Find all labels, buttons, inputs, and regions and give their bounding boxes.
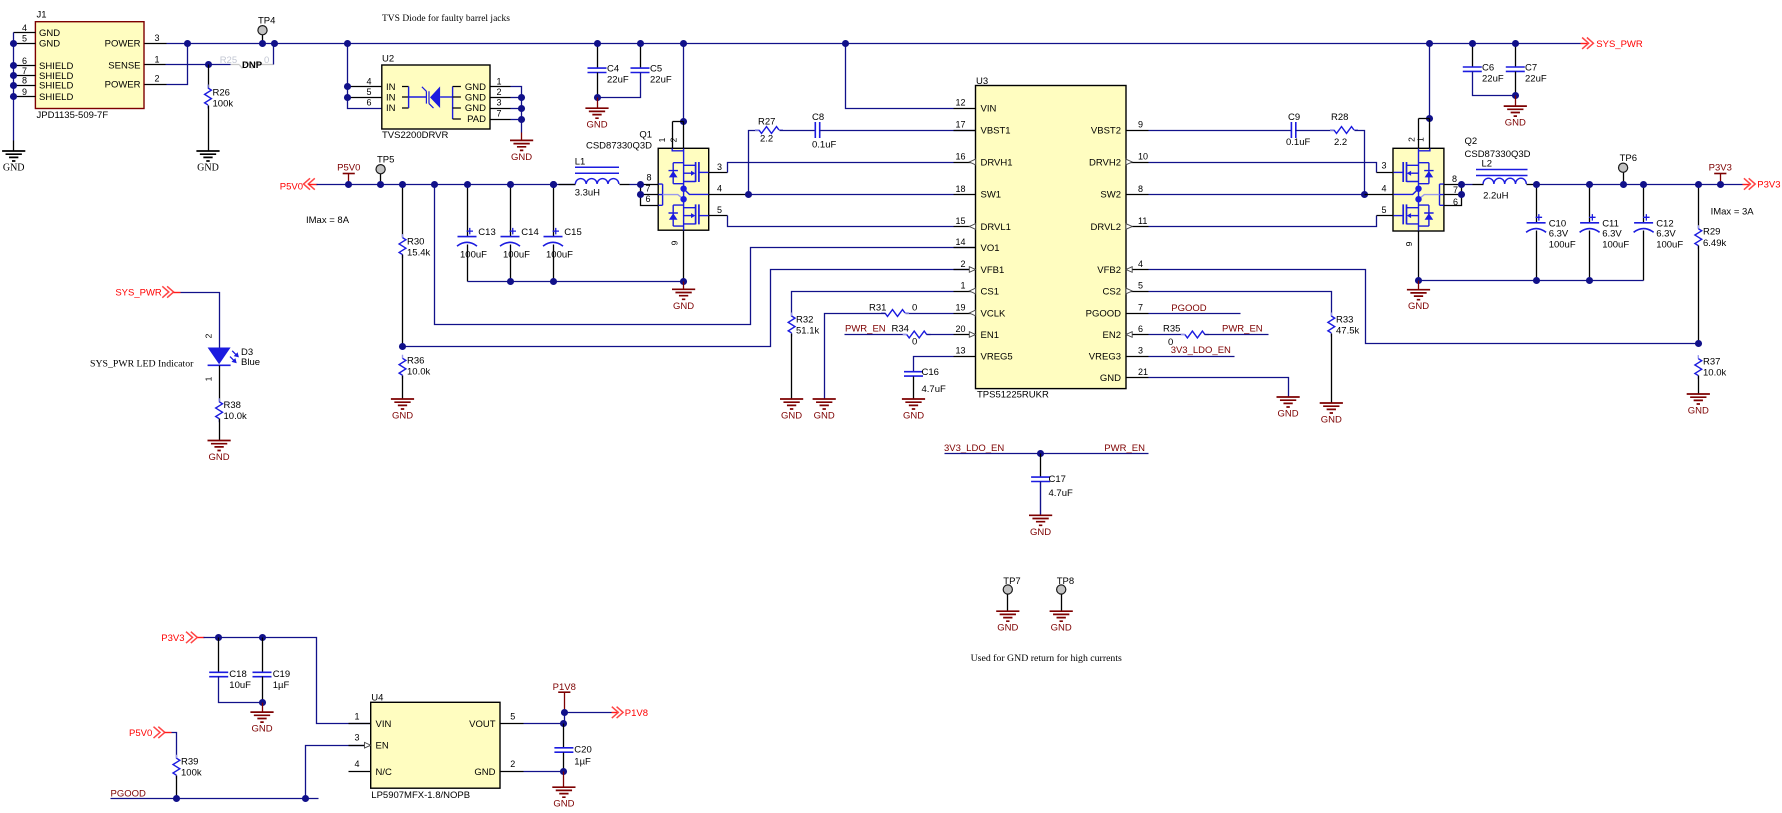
svg-text:100uF: 100uF [503,250,530,261]
resistor R27 2.2 [755,129,783,131]
svg-text:LP5907MFX-1.8/NOPB: LP5907MFX-1.8/NOPB [371,790,470,801]
svg-text:IMax = 3A: IMax = 3A [1711,207,1755,218]
TVS diode U2 TVS2200DRVR body [382,65,490,129]
junction J1 pin7 [10,72,17,79]
test point TP6 [1623,173,1625,185]
svg-text:3: 3 [1138,346,1143,356]
node junction EN riser PGOOD [302,795,309,802]
capacitor C19 1uF [262,638,264,673]
capacitor C14 100uF [510,185,512,237]
ground below R38 [208,441,231,451]
svg-text:7: 7 [1453,185,1458,195]
svg-text:0: 0 [264,55,269,66]
svg-text:2.2: 2.2 [760,134,773,145]
wire C8 to VBST1 [820,130,976,132]
svg-text:C19: C19 [273,669,290,680]
svg-text:R28: R28 [1331,112,1348,123]
svg-text:1: 1 [1416,137,1426,142]
svg-text:VFB2: VFB2 [1097,265,1121,276]
svg-text:EN2: EN2 [1103,330,1121,341]
svg-text:20: 20 [955,324,965,334]
J1 left pin stubs 4-9 [14,32,36,34]
svg-text:GND: GND [3,163,25,174]
node junction C18 [215,634,222,641]
node Q1 pin7 junction [637,191,644,198]
wire main SYS_PWR top bus [167,43,1581,45]
svg-text:R29: R29 [1703,227,1720,238]
svg-text:19: 19 [955,303,965,313]
junction J1 pin9 [10,93,17,100]
junction C18 C19 ground node [259,699,266,706]
svg-text:P3V3: P3V3 [1757,180,1780,191]
svg-text:VOUT: VOUT [469,719,496,730]
svg-text:TVS2200DRVR: TVS2200DRVR [382,130,448,141]
node junction C17 [1037,450,1044,457]
svg-text:SYS_PWR: SYS_PWR [115,288,162,299]
svg-text:R36: R36 [407,356,424,367]
svg-text:GND: GND [781,411,802,422]
svg-text:5: 5 [1381,205,1386,215]
node junction C19 [259,634,266,641]
node rail junction TP6 [1620,181,1627,188]
J1 pin2 POWER stub [145,84,167,86]
svg-text:Q1: Q1 [639,130,652,141]
svg-text:14: 14 [955,237,965,247]
wire EN riser to U4 [306,746,371,799]
U4 pin1 VIN [349,723,371,725]
svg-text:R38: R38 [224,400,241,411]
svg-text:15.4k: 15.4k [407,248,430,259]
node rail junction C13 [464,181,471,188]
wire R27 to C8 [780,130,816,132]
U4 pin5 VOUT [501,723,524,725]
capacitor C6 22uF [1472,44,1474,68]
ground below C16 [902,399,925,409]
ground below R31 [813,399,836,409]
wire SW1 to R27 riser [749,131,760,195]
U4 pin4 NC stub [349,771,371,773]
junction U2 pin5 [344,94,351,101]
svg-text:1µF: 1µF [273,680,290,691]
resistor R33 47.5k on CS2 [1149,292,1332,317]
node rail junction P3V3 flag [1717,181,1724,188]
node Q2 pin1-2 junction [1426,115,1433,122]
svg-text:4: 4 [717,184,722,194]
capacitor C16 4.7uF on VREG5 [914,357,954,372]
svg-text:6: 6 [22,56,27,66]
resistor R39 100k [175,755,177,779]
resistor R29 6.49k [1698,185,1700,229]
svg-text:22uF: 22uF [1525,73,1547,84]
svg-text:4.7uF: 4.7uF [1049,488,1073,499]
resistor R28 2.2 [1330,129,1358,131]
svg-text:11: 11 [1138,216,1147,226]
resistor R31 0 on VCLK [906,313,954,315]
svg-text:VREG3: VREG3 [1089,351,1121,362]
node bus junction at R25 [271,40,278,47]
U3 right pin stubs and names [1127,130,1149,132]
svg-text:GND: GND [1408,301,1429,312]
Q1 pin4 SW stub [709,194,749,196]
junction gnd rail C15 [550,278,557,285]
U3 left pin stubs and names [954,108,976,110]
node junction VOUT [560,720,567,727]
svg-text:IN: IN [386,103,396,114]
junction gnd rail Q1 pad [680,278,687,285]
svg-text:C5: C5 [650,63,662,74]
node main bus junction at pin2 riser [184,40,191,47]
Q1 pad 9 to ground rail [683,231,685,282]
svg-text:R30: R30 [407,237,424,248]
svg-text:SHIELD: SHIELD [39,92,73,103]
svg-text:51.1k: 51.1k [796,326,819,337]
node junction C20 GND [560,768,567,775]
svg-text:1: 1 [960,281,965,291]
svg-text:POWER: POWER [105,80,141,91]
svg-text:Q2: Q2 [1465,136,1478,147]
svg-text:6.3V: 6.3V [1602,229,1622,240]
ground below C19 [250,712,273,722]
wire output cap ground rail [468,281,684,283]
ground below U3 GND pin [1277,397,1300,407]
svg-text:VIN: VIN [981,103,997,114]
wire U4 GND to C20 bottom [524,771,564,773]
svg-text:22uF: 22uF [607,74,629,85]
svg-text:GND: GND [1051,623,1072,634]
svg-text:GND: GND [209,452,230,463]
resistor R32 51.1k on CS1 [792,292,954,317]
svg-text:GND: GND [465,93,486,104]
svg-text:VCLK: VCLK [981,308,1006,319]
test point TP7 [1003,585,1012,594]
svg-text:CS1: CS1 [981,286,999,297]
node Q2 pin8 junction [1458,181,1465,188]
svg-text:2: 2 [960,259,965,269]
svg-text:PWR_EN: PWR_EN [1104,443,1145,454]
svg-text:R39: R39 [181,757,198,768]
wire output2 cap ground rail [1419,280,1644,282]
resistor R30 15.4k [402,185,404,238]
svg-text:2.2: 2.2 [1334,137,1347,148]
svg-text:DNP: DNP [242,60,263,71]
wire P1V8 node [565,712,612,714]
svg-text:4: 4 [366,77,371,87]
svg-text:TVS Diode for faulty barrel ja: TVS Diode for faulty barrel jacks [382,13,510,24]
node rail junction R30 [399,181,406,188]
svg-text:PWR_EN: PWR_EN [1222,324,1263,335]
node rail junction VO1 sense [431,181,438,188]
svg-text:R33: R33 [1336,315,1353,326]
svg-text:5: 5 [22,34,27,44]
svg-text:9: 9 [670,240,680,245]
svg-text:P5V0: P5V0 [280,182,303,193]
svg-text:IMax = 8A: IMax = 8A [306,215,350,226]
node bus junction C7 [1512,40,1519,47]
capacitor C15 100uF [553,185,555,237]
ground below Q1 pad [672,289,695,299]
svg-text:1: 1 [657,137,667,142]
net label 3V3_LDO_EN on VREG3 [1149,356,1235,358]
svg-text:6: 6 [645,194,650,204]
junction gnd2 rail C10 [1533,277,1540,284]
svg-text:J1: J1 [37,10,47,21]
svg-text:GND: GND [465,82,486,93]
svg-text:GND: GND [39,39,60,50]
svg-text:8: 8 [1138,184,1143,194]
svg-text:C18: C18 [229,669,246,680]
resistor R36 10.0k [402,355,404,379]
capacitor C17 4.7uF [1040,454,1042,478]
junction gnd2 rail Q2 pad [1415,277,1422,284]
node SW1 junction R27 riser [745,191,752,198]
svg-text:GND: GND [511,152,532,163]
node rail junction P5V0 flag [345,181,352,188]
svg-text:GND: GND [1278,409,1299,420]
ground below C17 [1029,515,1052,525]
wire bus drop to Q1 pins 1-2 [683,44,685,122]
resistor R38 10.0k [218,398,220,422]
wire Q1 pad ground lead [683,282,685,290]
node rail junction C11 [1586,181,1593,188]
svg-text:EN: EN [376,741,389,752]
svg-text:GND: GND [251,724,272,735]
wire SYS_PWR to D3 [181,293,220,348]
svg-text:100k: 100k [213,99,234,110]
capacitor C8 0.1uF [815,122,819,138]
wire VO1 sense to rail [435,185,976,325]
svg-text:GND: GND [39,28,60,39]
node VFB2 divider junction [1695,340,1702,347]
svg-text:CS2: CS2 [1103,286,1121,297]
svg-text:P1V8: P1V8 [625,708,648,719]
node SENSE junction [205,61,212,68]
wire P5V0 to R39 [172,733,177,759]
svg-text:9: 9 [1404,241,1414,246]
svg-text:GND: GND [553,799,574,810]
svg-text:GND: GND [586,120,607,131]
svg-text:10.0k: 10.0k [407,367,430,378]
svg-text:L1: L1 [575,157,586,168]
wire R28 to SW2 riser [1355,131,1365,195]
node bus junction C5 [637,40,644,47]
wire Q1 pin1 pin2 leads [673,121,684,123]
wire U2 IN pin4 [348,86,382,88]
svg-text:4.7uF: 4.7uF [922,384,946,395]
wire C19 ground lead [262,703,264,713]
test point TP4 [262,35,264,44]
test point TP8 [1057,585,1066,594]
ground below R36 [391,399,414,409]
svg-text:C6: C6 [1482,62,1494,73]
net arrow P3V3 right [1743,184,1751,186]
svg-text:P3V3: P3V3 [1709,163,1732,174]
svg-text:Used for GND return for high c: Used for GND return for high currents [971,653,1122,664]
svg-text:DRVL1: DRVL1 [981,222,1011,233]
svg-text:16: 16 [955,152,965,162]
svg-text:TP4: TP4 [258,16,275,27]
svg-text:100uF: 100uF [460,250,487,261]
svg-text:10: 10 [1138,152,1148,162]
wire VFB2 to output divider [1149,270,1699,344]
wire Q2 pad ground lead [1418,281,1420,290]
junction gnd rail C14 [507,278,514,285]
svg-text:21: 21 [1138,367,1148,377]
LED D3 Blue [208,348,231,365]
wire C4 ground lead [597,98,599,109]
svg-text:10.0k: 10.0k [224,411,247,422]
svg-text:L2: L2 [1482,159,1493,170]
inductor L1 3.3uH [559,184,576,186]
node Q2 pin7 junction [1458,191,1465,198]
svg-text:GND: GND [197,163,219,174]
svg-text:C20: C20 [574,745,591,756]
svg-text:SENSE: SENSE [108,60,140,71]
svg-text:47.5k: 47.5k [1336,326,1359,337]
resistor R26 100k [208,65,210,89]
svg-text:1: 1 [497,77,502,87]
svg-text:POWER: POWER [105,39,141,50]
node SW2 junction [1361,191,1368,198]
wire Q2 pin8 to L2 [1462,184,1473,186]
wire DRVL2 to Q2 pin5 [1149,216,1377,227]
svg-text:0: 0 [912,337,917,348]
wire J1 ground bus [13,33,15,141]
svg-text:6: 6 [366,98,371,108]
svg-text:4: 4 [354,759,359,769]
Q1 pin3 gate stub to DRVH1 [709,172,728,174]
svg-text:GND: GND [474,767,495,778]
svg-text:VIN: VIN [376,719,392,730]
transistor Q1 internal MOSFET pair [672,149,683,189]
svg-text:R32: R32 [796,315,813,326]
op-amp U3 TPS51225RUKR body [976,86,1127,389]
capacitor C12 6.3V 100uF [1643,185,1645,223]
svg-text:5: 5 [366,87,371,97]
node junction P1V8 flag [561,709,568,716]
svg-text:C17: C17 [1049,474,1066,485]
svg-text:EN1: EN1 [981,330,999,341]
node rail junction C12 [1640,181,1647,188]
ground below C4 [585,108,608,118]
node VFB1 divider junction [399,343,406,350]
svg-text:TP7: TP7 [1003,576,1020,587]
svg-text:DRVL2: DRVL2 [1091,222,1121,233]
wire C9 to R28 [1296,130,1335,132]
J1 pin1 SENSE stub [145,64,166,66]
svg-text:TP5: TP5 [377,155,394,166]
svg-text:2.2uH: 2.2uH [1483,191,1508,202]
node rail junction C15 [550,181,557,188]
capacitor C10 6.3V 100uF [1536,185,1538,223]
junction C4 C5 ground node [594,94,601,101]
svg-text:R34: R34 [892,324,909,335]
node rail junction R29 [1695,181,1702,188]
svg-text:SW2: SW2 [1100,190,1121,201]
node bus junction C6 [1469,40,1476,47]
svg-text:R37: R37 [1703,357,1720,368]
U4 pin2 GND [501,771,524,773]
svg-text:3: 3 [354,733,359,743]
resistor R35 0 on EN2 [1149,334,1185,336]
wire DRVH2 to Q2 pin3 [1149,163,1377,173]
node rail junction C14 [507,181,514,188]
svg-text:100uF: 100uF [546,250,573,261]
svg-text:U3: U3 [976,76,988,87]
svg-text:PWR_EN: PWR_EN [845,324,886,335]
svg-text:6.49k: 6.49k [1703,238,1726,249]
node Q1 pin1-2 junction [680,118,687,125]
resistor R37 10.0k [1697,355,1699,379]
svg-text:GND: GND [814,411,835,422]
wire C7 ground lead [1515,96,1517,107]
wire VFB1 to divider [403,270,976,347]
svg-text:P3V3: P3V3 [161,633,184,644]
svg-text:R35: R35 [1163,324,1180,335]
svg-text:C4: C4 [607,63,619,74]
svg-text:2: 2 [497,87,502,97]
ground below R37 [1687,394,1710,404]
wire VIN riser from bus [846,44,954,109]
svg-text:VO1: VO1 [981,243,1000,254]
Q1 pin5 gate stub to DRVL1 [709,215,728,217]
svg-text:IN: IN [386,93,396,104]
junction U2 gnd pin7 [518,116,525,123]
junction J1 pin5 [10,40,17,47]
ground below TP8 [1050,611,1073,621]
net arrow P1V8 output [612,712,619,714]
svg-text:VBST2: VBST2 [1091,125,1121,136]
svg-text:6: 6 [1138,324,1143,334]
svg-text:N/C: N/C [376,767,393,778]
svg-text:5: 5 [717,205,722,215]
wire SW1 node to U3 [749,194,954,196]
svg-text:PGOOD: PGOOD [111,788,147,799]
svg-text:C15: C15 [564,227,581,238]
wire P5V0 rail [317,184,576,186]
wire P1V8 to VOUT junction [564,713,566,724]
ground below C7 [1504,106,1527,116]
node Q1 pin8 junction [637,181,644,188]
svg-text:15: 15 [955,216,965,226]
svg-text:2: 2 [669,137,679,142]
wire U3 GND pin to ground [1149,378,1289,398]
capacitor C4 22uF [597,44,599,69]
svg-text:1: 1 [204,376,214,381]
svg-text:100uF: 100uF [1549,239,1576,250]
capacitor C13 100uF [467,185,469,237]
svg-text:100k: 100k [181,768,202,779]
svg-text:22uF: 22uF [650,74,672,85]
svg-text:R26: R26 [213,88,230,99]
capacitor C7 22uF [1515,44,1517,68]
ground below J1 [2,151,25,161]
node rail junction C15-L1 [550,181,557,188]
svg-text:U2: U2 [382,54,394,65]
junction C6 C7 ground node [1512,92,1519,99]
svg-text:P5V0: P5V0 [129,728,152,739]
svg-text:C16: C16 [922,367,939,378]
inductor L2 2.2uH [1483,178,1526,184]
svg-text:PGOOD: PGOOD [1086,308,1122,319]
ground below R33 [1320,403,1343,413]
capacitor C5 22uF [640,44,642,69]
svg-text:12: 12 [955,98,965,108]
svg-text:R31: R31 [869,303,886,314]
ground below Q2 pad [1407,290,1430,300]
svg-text:8: 8 [22,76,27,86]
ground below R26 [196,151,219,161]
svg-text:3: 3 [154,33,159,43]
